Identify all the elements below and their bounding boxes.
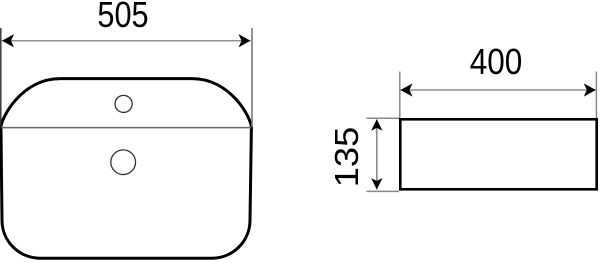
dim 505 arrow right: [239, 34, 251, 47]
dim 505 arrow left: [2, 34, 14, 47]
drain hole: [111, 150, 136, 175]
label 400: [435, 41, 558, 83]
faucet hole: [115, 95, 132, 112]
dim 400 arrow left: [401, 83, 413, 96]
dim 505 line: [2, 40, 251, 42]
side-view rectangle: [400, 119, 596, 189]
dim 135 extension line bottom: [367, 190, 400, 192]
dim 135 extension line top: [367, 117, 400, 119]
dim 505 extension line left: [0, 28, 2, 127]
dim 135 arrow down: [371, 178, 382, 189]
dim 135 line: [376, 120, 378, 190]
basin rim line: [1, 127, 251, 129]
dim 400 line: [401, 89, 596, 91]
dim 400 extension line left: [399, 72, 401, 119]
dim 135 arrow up: [371, 119, 382, 130]
basin top-view outline: [1, 79, 251, 259]
dim 400 arrow right: [584, 83, 596, 96]
label 135: [328, 80, 366, 234]
dim 400 extension line right: [595, 72, 597, 119]
label 505: [64, 0, 183, 36]
dim 505 extension line right: [251, 28, 253, 127]
